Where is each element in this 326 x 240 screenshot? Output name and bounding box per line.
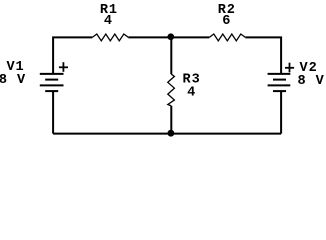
svg-text:8 V: 8 V — [298, 74, 325, 89]
wire (top node to R2 left lead) — [170, 36, 209, 38]
resistor R3 — [168, 74, 175, 106]
wire top-right (R2 right lead to V2 top) — [245, 37, 281, 74]
polarity + of V2 — [285, 63, 294, 73]
wire (V1 bottom to bottom-left corner) — [52, 91, 54, 134]
wire bottom rail — [53, 133, 281, 135]
svg-text:4: 4 — [187, 85, 196, 100]
resistor R1 — [92, 34, 128, 41]
svg-text:8 V: 8 V — [0, 73, 26, 88]
wire top-left (from V1 top to R1 left lead) — [53, 37, 92, 74]
wire (top node down to R3) — [170, 37, 172, 74]
node bottom junction — [168, 130, 175, 137]
battery V2 — [268, 74, 291, 91]
polarity + of V1 — [59, 62, 68, 72]
svg-text:6: 6 — [222, 14, 231, 29]
wire (R1 right lead to top node) — [128, 36, 170, 38]
battery V1 — [40, 74, 64, 91]
wire (R3 bottom to bottom node) — [170, 106, 172, 134]
wire (V2 bottom to bottom-right corner) — [280, 91, 282, 134]
svg-text:4: 4 — [104, 14, 113, 29]
node top junction — [167, 33, 174, 40]
resistor R2 — [209, 34, 245, 41]
